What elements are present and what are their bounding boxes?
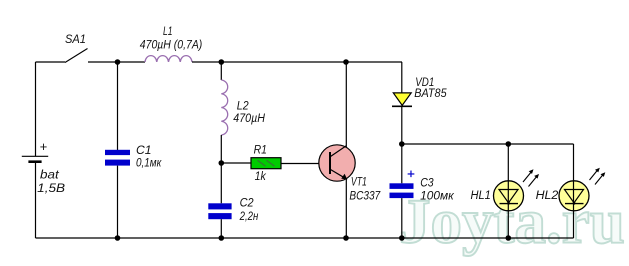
capacitor C2	[208, 203, 231, 219]
switch SA1	[65, 49, 88, 63]
junction bottom HL1	[506, 235, 512, 241]
wire L2 to R1 node to C2	[220, 135, 222, 203]
inductor L2	[221, 80, 227, 135]
svg-text:SA1: SA1	[65, 34, 86, 46]
svg-text:BC337: BC337	[349, 191, 380, 203]
junction top C1	[115, 59, 121, 65]
wire C1 branch lower	[117, 166, 119, 238]
wire L2 branch top	[220, 62, 222, 80]
wire HL2 branch upper	[573, 144, 575, 181]
watermark Joyta.ru	[399, 187, 625, 257]
junction C3 top node	[399, 141, 405, 147]
wire mid rail to LEDs	[402, 143, 574, 145]
diode VD1	[392, 93, 412, 106]
junction bottom C2	[219, 235, 225, 241]
svg-text:R1: R1	[254, 144, 267, 156]
wire C1 branch upper	[117, 62, 119, 150]
capacitor C1	[105, 150, 130, 166]
wire node to R1	[221, 162, 251, 164]
junction bottom C1	[115, 235, 121, 241]
svg-text:L1: L1	[163, 26, 173, 38]
capacitor C3 polarized	[390, 183, 414, 198]
wire bottom rail	[36, 237, 574, 239]
svg-text:C1: C1	[136, 145, 152, 157]
svg-text:+: +	[40, 139, 48, 154]
svg-text:HL2: HL2	[536, 190, 559, 202]
battery bat 1,5V plus plate	[22, 155, 48, 157]
junction HL1 top node	[506, 141, 512, 147]
svg-text:+: +	[407, 166, 415, 181]
wire top left from battery to switch	[36, 61, 66, 63]
wire switch to L1	[88, 61, 145, 63]
battery bat 1,5V minus plate	[28, 160, 41, 163]
svg-text:BAT85: BAT85	[414, 88, 447, 100]
junction top collector	[343, 59, 349, 65]
svg-text:bat: bat	[40, 170, 60, 182]
svg-text:HL1: HL1	[471, 190, 491, 202]
wire left battery branch upper	[35, 62, 37, 156]
svg-text:C2: C2	[240, 198, 255, 210]
wire HL1 branch lower	[507, 211, 509, 239]
svg-text:0,1мк: 0,1мк	[136, 157, 162, 169]
transistor VT1	[319, 145, 355, 181]
wire VD1 branch top	[401, 62, 403, 93]
wire left battery branch lower	[35, 162, 37, 238]
svg-text:L2: L2	[237, 101, 249, 113]
svg-text:2,2н: 2,2н	[239, 211, 259, 223]
svg-text:100мк: 100мк	[420, 191, 454, 203]
resistor R1	[251, 158, 281, 169]
svg-text:470µH: 470µH	[233, 113, 265, 125]
wire HL2 branch lower	[573, 211, 575, 239]
junction top L2	[219, 59, 225, 65]
wire VD1 to C3 node	[401, 106, 403, 183]
junction bottom emitter	[343, 235, 349, 241]
junction R1 node	[219, 160, 225, 166]
wire HL1 branch upper	[507, 144, 509, 181]
inductor L1	[145, 56, 192, 62]
svg-text:C3: C3	[420, 178, 434, 190]
LED HL1	[494, 169, 540, 211]
wire C2 lower	[220, 219, 222, 238]
svg-text:VT1: VT1	[351, 177, 367, 189]
wire L1 to corner VD1	[192, 61, 402, 63]
junction bottom C3	[399, 235, 405, 241]
svg-text:1k: 1k	[255, 171, 267, 183]
wire collector up	[345, 62, 347, 147]
wire emitter down	[345, 179, 347, 238]
LED HL2	[559, 168, 605, 211]
wire R1 to base	[281, 163, 330, 165]
wire C3 lower	[401, 198, 403, 238]
svg-text:1,5В: 1,5В	[37, 183, 65, 195]
svg-text:470µH (0,7A): 470µH (0,7A)	[140, 39, 203, 51]
